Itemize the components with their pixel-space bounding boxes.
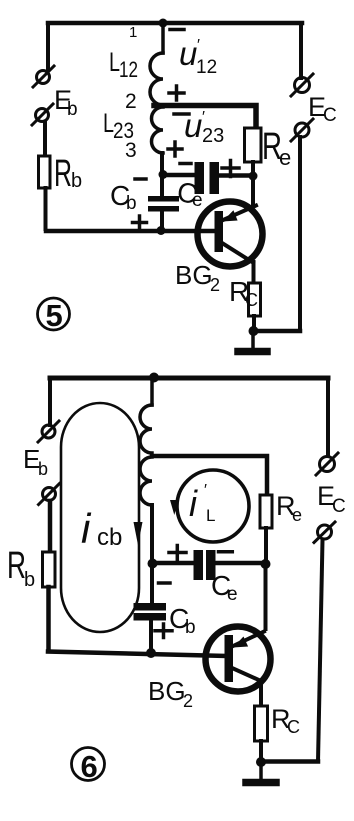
- wire: ground node to right rail fig6: [261, 759, 318, 764]
- resistor Re fig6: [260, 495, 272, 528]
- wire: coil bottom stub fig5: [160, 153, 164, 174]
- wire: right rail upper fig5: [299, 23, 303, 78]
- wire: right rail upper fig6: [326, 378, 330, 456]
- terminal Eb lower fig6: [39, 484, 60, 505]
- resistor Rb fig6: [43, 552, 56, 587]
- svg-text:2: 2: [125, 90, 137, 113]
- transistor BG2 fig5: [198, 202, 263, 267]
- svg-text:′: ′: [204, 482, 207, 499]
- arrow of i'L loop: [170, 500, 179, 515]
- svg-text:C: C: [287, 717, 300, 737]
- terminal Eb lower fig5: [32, 104, 53, 125]
- wire: Ce to emitter node fig5: [219, 173, 253, 178]
- svg-text:′: ′: [202, 109, 205, 126]
- wire: collector to Rc fig5: [252, 262, 256, 283]
- svg-text:u: u: [184, 107, 202, 144]
- plus of Ce fig6: [169, 546, 186, 560]
- junction: Ce left node fig6: [148, 559, 158, 569]
- wire: Eb to Rb fig6: [48, 501, 53, 552]
- wire: Rc to ground node fig5: [252, 316, 256, 331]
- terminal Ec lower fig6: [314, 522, 335, 543]
- wire: tap to Re fig6: [152, 456, 267, 495]
- resistor Re fig5: [245, 128, 262, 162]
- wire: right rail lower fig5: [298, 137, 302, 331]
- minus of Ce fig6: [219, 550, 233, 554]
- inductor lower half fig6: [140, 457, 152, 505]
- resistor Rc fig6: [255, 706, 268, 741]
- svg-text:R: R: [54, 153, 72, 195]
- svg-text:BG: BG: [148, 676, 186, 706]
- plus of Ce fig5: [222, 161, 239, 177]
- arrow of i_cb loop: [134, 522, 143, 545]
- capacitor Cb fig5: [148, 174, 179, 231]
- wire: top rail fig5: [48, 21, 302, 26]
- transistor BG2 fig6: [206, 627, 271, 692]
- svg-text:b: b: [67, 99, 78, 120]
- svg-text:e: e: [279, 145, 291, 170]
- svg-text:b: b: [24, 569, 35, 591]
- inductor L12 fig5: [150, 21, 163, 105]
- plus of u'23 fig5: [168, 142, 182, 156]
- capacitor Ce fig6: [194, 550, 216, 580]
- wire: tap 2 to Re fig5: [154, 106, 256, 129]
- minus of Cb fig5: [135, 177, 146, 181]
- wire: Ce node to transistor fig6: [264, 564, 268, 629]
- capacitor Ce fig5: [195, 162, 220, 194]
- wire: Eb to Rb fig5: [43, 122, 47, 156]
- svg-text:b: b: [185, 617, 196, 638]
- svg-text:2: 2: [210, 275, 220, 295]
- svg-text:3: 3: [125, 139, 137, 162]
- terminal Ec upper fig5: [291, 74, 313, 96]
- wire: Re to emitter node fig5: [251, 162, 255, 206]
- junction: Ce right node fig6: [261, 559, 271, 569]
- junction: top tank node fig5: [159, 19, 168, 28]
- wire: Ce right lead fig6: [216, 561, 266, 566]
- junction: ground node fig5: [249, 326, 259, 336]
- wire: base rail fig5: [46, 229, 215, 234]
- junction: base/Cb node fig6: [146, 648, 156, 658]
- svg-text:b: b: [71, 170, 82, 192]
- current loop i_cb fig6: [61, 403, 139, 632]
- svg-text:b: b: [38, 459, 48, 479]
- minus of Ce fig5: [180, 162, 191, 166]
- terminal Ec lower fig5: [291, 119, 313, 141]
- junction: base/Cb node fig5: [157, 226, 166, 235]
- wire: top rail fig6: [50, 376, 328, 381]
- junction: coil bottom node fig5: [159, 170, 168, 179]
- terminal Ec upper fig6: [316, 453, 338, 475]
- wire: Re to Ce node fig6: [264, 528, 268, 563]
- svg-text:L: L: [206, 506, 215, 525]
- terminal Eb upper fig6: [38, 421, 59, 442]
- plus of Cb fig5: [133, 216, 147, 229]
- ground fig6: [246, 762, 276, 783]
- minus of u'12 fig5: [170, 28, 184, 32]
- svg-text:2: 2: [183, 691, 193, 711]
- wire: Rc to ground node fig6: [259, 741, 263, 761]
- wire: Rb to base node fig5: [44, 188, 48, 229]
- svg-text:C: C: [332, 496, 346, 517]
- svg-text:i: i: [189, 483, 198, 524]
- figure number 5: [38, 298, 70, 333]
- inductor L23 fig5: [152, 107, 164, 153]
- wire: left rail upper fig6: [48, 378, 52, 425]
- svg-text:C: C: [323, 105, 337, 126]
- ground fig5: [238, 331, 267, 352]
- svg-text:e: e: [192, 190, 203, 211]
- svg-text:u: u: [179, 35, 197, 72]
- wire: coil bottom to Ce node fig6: [150, 505, 154, 563]
- wire: collector to Rc fig6: [259, 683, 263, 706]
- wire: coil bottom to Ce fig5: [163, 173, 195, 178]
- svg-text:6: 6: [81, 749, 98, 784]
- resistor Rc fig5: [249, 283, 261, 316]
- loop i'L fig6: [177, 470, 249, 542]
- svg-text:23: 23: [202, 125, 224, 147]
- inductor upper half fig6: [140, 378, 152, 453]
- plus of u'12 fig5: [169, 86, 184, 100]
- svg-text:′: ′: [197, 37, 200, 54]
- svg-text:BG: BG: [175, 260, 213, 290]
- junction: top tank node fig6: [149, 373, 159, 383]
- resistor Rb fig5: [39, 156, 51, 188]
- wire: right rail lower fig6: [318, 540, 323, 762]
- svg-text:5: 5: [46, 298, 63, 333]
- wire: ground node to right rail fig5: [254, 329, 301, 334]
- svg-text:12: 12: [119, 57, 138, 82]
- wire: left rail upper fig5: [46, 23, 50, 70]
- svg-text:12: 12: [196, 57, 217, 78]
- capacitor Cb fig6: [134, 563, 167, 652]
- svg-text:b: b: [126, 193, 137, 214]
- junction: Re/Ce node fig5: [249, 172, 258, 181]
- junction: ground node fig6: [256, 757, 266, 767]
- figure number 6: [72, 748, 105, 785]
- wire: Ce left lead fig6: [152, 561, 194, 566]
- svg-text:cb: cb: [97, 524, 122, 551]
- plus of Cb fig6: [155, 624, 172, 638]
- wire: Rb to base node fig6: [46, 587, 51, 650]
- svg-text:e: e: [292, 505, 302, 525]
- wire: base rail fig6: [48, 652, 225, 657]
- minus of u'23 fig5: [174, 112, 189, 116]
- terminal Eb upper fig5: [33, 66, 54, 87]
- svg-text:1: 1: [129, 24, 137, 41]
- svg-text:C: C: [245, 290, 258, 310]
- minus of Cb fig6: [159, 581, 171, 585]
- svg-text:e: e: [227, 584, 238, 605]
